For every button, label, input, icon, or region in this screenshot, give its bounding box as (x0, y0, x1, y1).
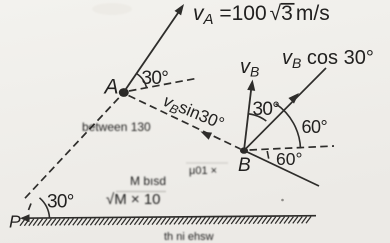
bleed-through sqrt M x 10 (106, 191, 166, 208)
svg-text:A: A (103, 76, 119, 99)
solid line from B descending right (244, 151, 319, 187)
vector v_A arrowhead (175, 4, 185, 15)
last dash of P line near arc (29, 204, 32, 211)
svg-text:M bısd: M bısd (130, 174, 166, 188)
svg-text:60°: 60° (302, 117, 328, 137)
svg-text:th ni ehsw: th ni ehsw (164, 231, 214, 243)
vector v_B arrowhead (247, 80, 255, 91)
arrowhead on v_B cos30 line (288, 93, 299, 104)
svg-text:μ01 ×: μ01 × (189, 165, 217, 177)
svg-text:P: P (9, 212, 21, 232)
line v_B cos30 from B up-right (244, 68, 326, 151)
svg-text:√M × 10: √M × 10 (106, 191, 161, 208)
ground hatching (20, 217, 311, 226)
dashed reference line from A rising right (129, 79, 196, 92)
dashed line A to B (129, 96, 241, 150)
ground line (22, 216, 316, 219)
dashed horizontal line right of B (250, 146, 335, 150)
dashed line P to A (25, 96, 121, 199)
svg-text:30°: 30° (47, 192, 74, 213)
node A dot (119, 88, 129, 97)
radical overline above 3 (281, 3, 295, 5)
angle arc 30 deg at A (136, 74, 146, 89)
svg-text:vA =100√3m/s: vA =100√3m/s (193, 2, 330, 28)
angle tick 60 deg lower at B (267, 151, 269, 159)
arrowhead on AB dashed line pointing to A (201, 132, 213, 140)
vector v_A line (124, 11, 180, 93)
bleed smudge top (92, 3, 132, 15)
svg-text:B: B (238, 155, 251, 176)
bleed speck (281, 199, 284, 202)
angle arc 30 deg at B (249, 114, 267, 121)
angle arc 30 deg at P (40, 198, 50, 218)
vector v_B line (244, 86, 252, 151)
svg-text:60°: 60° (276, 149, 302, 169)
svg-text:30°: 30° (253, 99, 280, 120)
ground left arrowhead (20, 214, 30, 222)
node B dot (240, 147, 248, 153)
angle arc 60 deg upper at B (276, 104, 301, 149)
bleed-through fraction upper right (186, 163, 228, 177)
